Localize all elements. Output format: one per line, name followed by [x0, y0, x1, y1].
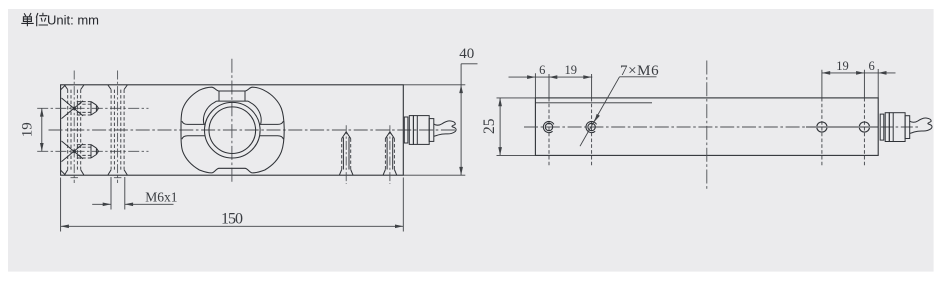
svg-text:19: 19: [20, 122, 36, 137]
svg-text:M6x1: M6x1: [145, 189, 177, 204]
dim25 line: [499, 98, 501, 155]
dims 19,6 top-right: [822, 59, 896, 98]
svg-text:40: 40: [459, 46, 474, 62]
dim40 arrow up: [459, 85, 463, 93]
mid vertical centerline: [706, 61, 708, 191]
dim19L arrow right: [583, 75, 591, 79]
dim150 arrow right: [395, 224, 403, 228]
connector washer 2: [409, 116, 413, 145]
hole T1: [543, 98, 554, 166]
svg-text:150: 150: [221, 210, 243, 227]
blind hole1 centerline: [345, 125, 347, 184]
hole T3: [817, 98, 827, 166]
holeT1 bore circle: [545, 123, 552, 130]
dim 25: [481, 98, 536, 155]
connector body seam: [416, 116, 418, 145]
column2 centerline: [117, 71, 119, 184]
dim19 arrow up: [40, 108, 44, 116]
waist web line lower-left: [182, 136, 205, 139]
collar chord: [217, 100, 248, 102]
column1 thread dashes: [68, 90, 81, 170]
column2 thread dashes: [111, 90, 124, 170]
dim6 outside arrow: [527, 75, 535, 79]
centerline beyond right edge: [881, 126, 920, 128]
ring outer circle: [205, 102, 261, 158]
stud2 nose: [91, 145, 99, 158]
hole T4: [859, 98, 869, 166]
beam outline: [61, 85, 404, 175]
blind hole2 countersink: [383, 170, 397, 176]
bottom blind hole left: [339, 125, 353, 184]
blind hole1 bore lines: [343, 137, 349, 169]
title: 位 glyph: [36, 13, 48, 26]
dimM6x1 arrow left: [103, 202, 111, 206]
dim150 line: [61, 225, 404, 227]
vertical hole column 2: [108, 71, 127, 184]
column1 bore dashes: [71, 90, 77, 170]
dim40 line with shoulder: [461, 64, 477, 175]
dim19R arrow right: [856, 71, 864, 75]
holeT2 centerline: [591, 98, 593, 166]
title: 单 glyph: [21, 13, 33, 26]
dim25 arrow up: [498, 98, 502, 106]
column1 centerline: [73, 71, 75, 184]
waist web line upper-right: [259, 121, 283, 124]
blind hole1 drill cone: [342, 132, 351, 139]
horizontal centerline top view: [524, 126, 806, 128]
blind hole1 countersink: [339, 170, 353, 176]
dim40 extension lines: [403, 85, 465, 175]
dim25 extension lines: [497, 98, 536, 155]
dim150 extension lines: [61, 178, 404, 232]
holeT4 lower arc: [859, 128, 869, 132]
horizontal stud lower: [62, 141, 99, 162]
cable connector top view: [880, 113, 932, 142]
dim6R outside arrow: [878, 71, 886, 75]
svg-text:19: 19: [565, 63, 578, 77]
stud1 cone cross: [62, 98, 84, 119]
waist web line upper-left: [182, 121, 205, 124]
dimM6x1 arrow right: [125, 202, 133, 206]
dim 40: [403, 46, 477, 175]
stud centerline upper: [37, 107, 148, 109]
column2 bore dashes: [114, 90, 120, 170]
dim25 arrow down: [498, 147, 502, 155]
connector body: [889, 113, 905, 142]
svg-text:6: 6: [868, 59, 874, 73]
label 7xM6 with leader: [580, 63, 659, 146]
dims6-19 line: [509, 76, 593, 78]
dims6-19 extension lines: [535, 73, 591, 98]
waist web lines: [182, 121, 284, 139]
leader shoulder: [620, 76, 657, 78]
column1 top countersink: [65, 85, 84, 90]
holeT2 bore circle: [588, 123, 595, 130]
blind hole2 drill cone: [385, 132, 394, 139]
dim40 arrow down: [459, 167, 463, 175]
blind hole2 thread dashes: [385, 139, 394, 170]
waist web line lower-right: [259, 136, 283, 139]
holeT1 centerline: [548, 98, 550, 166]
chamfer line top: [535, 102, 652, 104]
holeT4 upper arc: [859, 122, 869, 126]
stud1 nose: [91, 102, 99, 115]
cable wavy break symbol: [910, 118, 933, 133]
bottom blind hole right: [383, 125, 397, 184]
stud centerline lower: [37, 150, 148, 152]
dim 150: [61, 178, 404, 232]
blind hole1 thread dashes: [342, 139, 351, 170]
svg-text:Unit: mm: Unit: mm: [47, 13, 99, 28]
column2 bottom countersink: [108, 170, 127, 175]
svg-text:25: 25: [481, 118, 498, 134]
dims19-6 line: [822, 72, 896, 74]
column1 bottom countersink: [65, 170, 84, 175]
dim 19 left: [20, 108, 44, 151]
blind hole2 bore lines: [387, 137, 393, 169]
dim19 arrow down: [40, 143, 44, 151]
horizontal centerline of beam: [49, 129, 457, 131]
svg-text:7×M6: 7×M6: [620, 63, 659, 79]
stud1 thread dashes: [77, 102, 91, 115]
stud1 bore dashes: [77, 104, 91, 112]
dim M6x1: [92, 177, 177, 210]
column1 center tick: [71, 177, 79, 179]
svg-text:6: 6: [539, 63, 545, 77]
stud1 center dot: [73, 107, 76, 110]
dim19L arrow left: [549, 75, 557, 79]
cable connector left view: [404, 116, 456, 145]
dim150 arrow left: [61, 224, 69, 228]
svg-text:19: 19: [836, 59, 849, 73]
stud2 center dot: [73, 150, 76, 153]
connector washer 1: [404, 117, 408, 143]
hole T2: [586, 98, 597, 166]
connector body: [413, 116, 429, 145]
leader line: [580, 77, 620, 146]
saddle side walls: [219, 91, 245, 101]
centerline solid segment through right holes: [806, 126, 878, 128]
dims19-6 extension lines: [822, 69, 878, 98]
connector body seam: [892, 113, 894, 142]
column2 center tick: [114, 177, 122, 179]
cable wavy break symbol: [434, 121, 457, 136]
vertical hole column 1: [65, 71, 84, 184]
column2 top countersink: [108, 85, 127, 90]
holeT4 centerline: [863, 98, 865, 166]
stud2 thread dashes: [77, 145, 91, 158]
binocular pocket outline: [181, 87, 284, 173]
blind hole2 centerline: [389, 125, 391, 184]
collar cap: [203, 91, 261, 124]
vertical centerline of blob: [231, 59, 233, 185]
dimM6x1 line: [92, 203, 173, 205]
leader arrowhead: [594, 114, 600, 122]
holeT1 thread arc: [543, 121, 554, 132]
holeT2 thread arc: [586, 121, 597, 132]
connector washer 1: [880, 114, 884, 140]
horizontal stud upper: [62, 98, 99, 119]
holeT3 centerline: [821, 98, 823, 166]
dimM6x1 extension lines: [111, 177, 125, 210]
dims 6,19 top-left: [509, 63, 593, 98]
dim19 line: [41, 108, 43, 151]
stud2 bore dashes: [77, 147, 91, 155]
holeT3 upper arc: [817, 122, 827, 126]
connector washer 2: [885, 113, 889, 142]
holeT3 lower arc: [817, 128, 827, 132]
collar arc right: [248, 101, 261, 124]
beam corner chamfers left: [61, 85, 66, 175]
connector end cap: [429, 119, 434, 142]
plate outline: [535, 98, 878, 155]
stud2 cone cross: [62, 141, 84, 162]
ring inner circle: [209, 107, 256, 154]
collar arc left: [203, 101, 216, 124]
dim19R arrow left: [822, 71, 830, 75]
connector end cap: [905, 116, 910, 139]
